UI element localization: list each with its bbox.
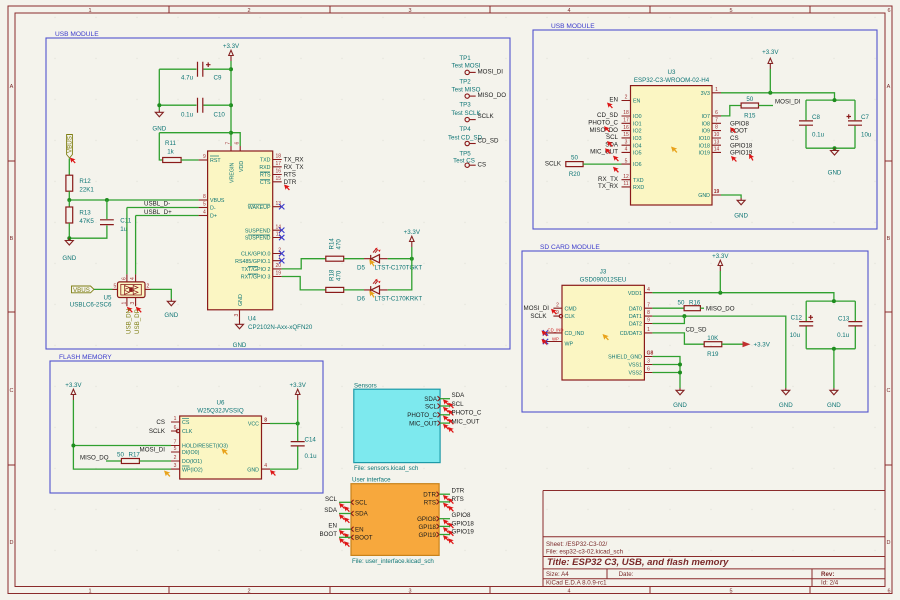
svg-text:Sensors: Sensors [354, 382, 377, 389]
svg-text:SCL: SCL [355, 500, 368, 507]
svg-text:15: 15 [623, 132, 629, 138]
svg-text:IO8: IO8 [701, 121, 710, 127]
wire U4 pin20 to R14 [282, 259, 326, 269]
svg-text:CMD: CMD [565, 306, 577, 312]
svg-text:CLK: CLK [565, 314, 576, 320]
erc arrows GPIO18 [443, 527, 449, 533]
svg-text:IO19: IO19 [699, 151, 711, 157]
svg-text:CLK/GPIO.0: CLK/GPIO.0 [241, 252, 270, 258]
svg-text:FLASH MEMORY: FLASH MEMORY [59, 354, 112, 361]
svg-text:CD_SD: CD_SD [478, 138, 500, 145]
svg-text:C10: C10 [214, 112, 226, 119]
svg-text:SUSPEND: SUSPEND [245, 228, 271, 234]
svg-text:VBUS: VBUS [73, 287, 90, 294]
junction VSS2 [678, 371, 682, 375]
erc arrows MIC_OUT [443, 424, 449, 430]
U6 left pin numbers [174, 416, 177, 469]
wire DAT0 to R16 [652, 307, 684, 309]
svg-text:VBUS: VBUS [67, 136, 74, 153]
svg-text:Test MISO: Test MISO [452, 87, 481, 94]
svg-text:B: B [10, 236, 14, 242]
erc arrows at U5 bottom pins [127, 307, 133, 313]
svg-text:RTS: RTS [424, 499, 436, 506]
svg-text:6: 6 [887, 588, 890, 594]
wire D- row [127, 208, 199, 275]
wire MISO_DO to R17 [106, 460, 121, 462]
svg-text:6: 6 [887, 8, 890, 14]
sheet pin SDA (UI) [351, 511, 369, 518]
svg-text:GSD090012SEU: GSD090012SEU [580, 277, 627, 284]
svg-text:5: 5 [625, 158, 628, 164]
svg-text:File: user_interface.kicad_sch: File: user_interface.kicad_sch [352, 558, 434, 565]
capacitor C11 1u [69, 200, 131, 238]
erc arrows EN (UI) [339, 530, 345, 536]
erc arrow at MISO_DO [604, 126, 610, 132]
svg-text:CD/DAT3: CD/DAT3 [620, 331, 642, 337]
erc arrows SCL [443, 407, 449, 413]
svg-text:+3.3V: +3.3V [290, 382, 307, 389]
sheet pin SCL (UI) [351, 500, 368, 507]
svg-text:CLK: CLK [182, 429, 193, 435]
svg-text:2: 2 [556, 302, 559, 308]
svg-text:D-: D- [210, 206, 216, 212]
junction R11 branch [229, 131, 233, 135]
svg-text:IO1: IO1 [633, 121, 642, 127]
svg-text:RXD: RXD [633, 185, 644, 191]
svg-text:SCL: SCL [325, 496, 338, 503]
svg-text:19: 19 [714, 189, 720, 195]
svg-text:22K1: 22K1 [79, 186, 94, 193]
wire EN (UI) [339, 528, 351, 530]
frame column numbers top [88, 8, 890, 14]
wire VDD1 row [652, 293, 834, 301]
capacitor C12 10u [790, 301, 856, 349]
module box USB MODULE (left) [46, 38, 510, 349]
svg-text:0.1u: 0.1u [837, 332, 850, 339]
erc arrow at VBUS label [70, 158, 76, 164]
svg-text:GPI19: GPI19 [418, 532, 436, 539]
svg-text:10K: 10K [707, 335, 719, 342]
svg-text:D: D [10, 540, 14, 546]
svg-text:3: 3 [408, 8, 411, 14]
svg-text:4: 4 [130, 277, 136, 280]
svg-text:R11: R11 [165, 140, 176, 147]
title block [543, 491, 885, 587]
wire SCL (UI) [339, 501, 351, 503]
svg-text:8: 8 [264, 418, 267, 424]
connector J3 GSD090012SEU body [562, 285, 644, 380]
svg-text:G8: G8 [647, 351, 654, 357]
svg-text:Rev:: Rev: [821, 571, 834, 578]
svg-text:RTS: RTS [260, 173, 271, 179]
svg-text:R13: R13 [79, 210, 91, 217]
svg-text:R16: R16 [689, 299, 701, 306]
svg-text:2: 2 [147, 283, 150, 289]
U6 pin names left [182, 420, 228, 473]
sheet pin PHOTO_C [407, 412, 440, 419]
U4 bottom GND pin3 [239, 310, 241, 319]
svg-text:GPIO8: GPIO8 [730, 120, 749, 127]
test point TP1 [452, 55, 481, 75]
svg-text:User interface: User interface [352, 477, 391, 484]
wire GPIO8 (UI) [439, 518, 450, 520]
svg-text:13: 13 [714, 139, 720, 145]
svg-text:C7: C7 [861, 114, 869, 121]
test point TP2 [452, 79, 481, 99]
U3 right pin numbers [714, 87, 720, 195]
svg-text:EN: EN [633, 99, 641, 105]
connector U5 USBLC6-2SC6 [118, 282, 146, 298]
erc arrows BOOT (UI) [339, 538, 345, 544]
svg-text:MOSI_DI: MOSI_DI [775, 99, 801, 106]
wire C9/C10 left join [158, 69, 160, 110]
svg-text:12: 12 [623, 174, 629, 180]
svg-text:WP(IO2): WP(IO2) [182, 467, 203, 473]
J3 left stubs [553, 308, 562, 316]
svg-text:SD CARD MODULE: SD CARD MODULE [540, 244, 600, 251]
svg-text:TX_RX: TX_RX [284, 157, 304, 164]
svg-text:2: 2 [247, 8, 250, 14]
sheet pin GPI18 (UI) [418, 524, 439, 531]
junction VBUS/C11 [105, 198, 109, 202]
svg-text:D: D [887, 540, 891, 546]
module box USB MODULE (right) [533, 30, 877, 229]
LED D6 LTST-C170KRKT [357, 279, 422, 303]
svg-text:GPIO18: GPIO18 [452, 521, 475, 528]
module box SD CARD MODULE [522, 251, 868, 412]
svg-text:9: 9 [647, 318, 650, 324]
svg-text:RTS: RTS [452, 496, 464, 503]
erc arrow at CMD [551, 309, 557, 315]
power +3.3V (U6 left) [65, 382, 82, 400]
U4 right stubs rows [273, 160, 282, 277]
svg-text:+3.3V: +3.3V [404, 229, 421, 236]
svg-text:DO(IO1): DO(IO1) [182, 459, 202, 465]
pin2 stub + wire to GND [145, 288, 151, 290]
wire DAT2 join [652, 316, 684, 323]
svg-text:2: 2 [625, 95, 628, 101]
svg-text:50: 50 [571, 155, 578, 162]
svg-text:VREGIN: VREGIN [230, 163, 236, 183]
svg-text:+3.3V: +3.3V [223, 43, 240, 50]
junction left join [157, 103, 161, 107]
erc arrow at IO6 stub [613, 167, 619, 173]
svg-text:CD_SD: CD_SD [597, 112, 619, 119]
junction C12/C13 top [832, 299, 836, 303]
sheet pin SDA [424, 396, 440, 403]
erc arrows SDA [443, 399, 449, 405]
U4 pin names right [235, 158, 271, 281]
junction +3.3V rail [410, 257, 414, 261]
erc arrow at IO18 row [748, 154, 755, 161]
svg-text:7: 7 [226, 142, 232, 145]
svg-text:8: 8 [715, 125, 718, 131]
svg-text:+3.3V: +3.3V [762, 49, 779, 56]
svg-text:17: 17 [275, 161, 281, 167]
junction left rail [71, 444, 75, 448]
svg-text:1: 1 [715, 87, 718, 93]
junction +3.3V [768, 91, 772, 95]
junction DAT1/DAT2 [682, 314, 686, 318]
ground GND (C12/C13) [827, 388, 841, 409]
svg-text:IO2: IO2 [633, 129, 642, 135]
erc arrow at BOOT [730, 127, 736, 133]
svg-text:7: 7 [174, 440, 177, 446]
wire R20 to IO6 [583, 163, 621, 165]
svg-text:4: 4 [625, 147, 628, 153]
pin D- stub U4 pin5 [199, 207, 208, 209]
svg-text:6: 6 [174, 425, 177, 431]
svg-text:DTR: DTR [284, 179, 297, 186]
erc arrows RTS [443, 503, 449, 509]
svg-text:C11: C11 [120, 218, 131, 225]
wire GND pin to C14 [270, 468, 298, 470]
pin RST stub U4 pin9 [199, 159, 208, 161]
svg-text:PHOTO_C: PHOTO_C [452, 410, 482, 417]
ground GND (R13/C11) [62, 238, 76, 262]
svg-text:MISO_DO: MISO_DO [478, 92, 507, 99]
svg-text:U4: U4 [248, 316, 256, 323]
svg-text:17: 17 [623, 118, 629, 124]
svg-text:U3: U3 [668, 69, 676, 76]
ground GND (U5) [164, 299, 178, 319]
J3 pin names left [565, 306, 585, 347]
svg-text:R17: R17 [129, 452, 141, 459]
svg-text:DTR: DTR [452, 488, 465, 495]
svg-text:TP2: TP2 [459, 79, 471, 86]
svg-text:GND: GND [827, 402, 841, 409]
resistor R20 50 [566, 155, 583, 179]
capacitor C10 0.1u [159, 98, 231, 119]
U5 bottom pin stubs 1,3 [127, 298, 136, 307]
svg-text:0.1u: 0.1u [181, 112, 194, 119]
svg-text:4.7u: 4.7u [181, 75, 194, 82]
svg-text:CP2102N-Axx-xQFN20: CP2102N-Axx-xQFN20 [248, 324, 313, 331]
svg-text:WAKEUP: WAKEUP [248, 205, 271, 211]
svg-text:U5: U5 [104, 295, 112, 302]
svg-text:GND: GND [779, 402, 793, 409]
svg-text:MISO_DO: MISO_DO [589, 127, 618, 134]
svg-text:50: 50 [678, 299, 685, 306]
svg-text:LTST-C170KRKT: LTST-C170KRKT [375, 296, 423, 303]
svg-text:2: 2 [174, 455, 177, 461]
svg-text:10u: 10u [790, 332, 801, 339]
erc arrows GPIO19 [443, 535, 449, 541]
svg-text:18: 18 [623, 110, 629, 116]
svg-text:C9: C9 [214, 75, 222, 82]
svg-text:DAT2: DAT2 [629, 322, 642, 328]
wire VBUS label to U5 pin5 [94, 288, 113, 290]
wire VCC to +3.3V [270, 423, 298, 425]
svg-text:IO7: IO7 [701, 114, 710, 120]
warning arrow at WP pin [164, 471, 170, 477]
wire C12/C13 bottom rail [806, 349, 855, 388]
svg-text:VSS2: VSS2 [628, 371, 642, 377]
ground GND (J3) [673, 388, 687, 409]
ground GND (DAT drop) [779, 388, 793, 409]
junction VBUS/R12 [67, 198, 71, 202]
svg-text:47K5: 47K5 [79, 218, 94, 225]
erc arrow at DTR [284, 185, 290, 191]
svg-text:470: 470 [336, 239, 343, 250]
module box FLASH MEMORY [50, 361, 323, 493]
svg-text:GND: GND [828, 170, 842, 177]
wire R15 to MOSI_DI [759, 105, 774, 107]
svg-text:WP: WP [565, 342, 574, 348]
erc arrows DTR [443, 495, 449, 501]
capacitor C8 0.1u [799, 100, 855, 148]
svg-text:R20: R20 [569, 171, 581, 178]
capacitor C7 10u [847, 100, 872, 148]
wire caps bottom rail [806, 147, 855, 149]
sheet pin DTR (UI) [423, 492, 439, 499]
svg-text:D+: D+ [210, 214, 217, 220]
svg-text:3: 3 [647, 359, 650, 365]
wire BOOT (UI) [339, 536, 351, 538]
svg-text:6: 6 [647, 367, 650, 373]
svg-text:HOLD/RESET(IO3): HOLD/RESET(IO3) [182, 444, 228, 450]
svg-text:RX_TX: RX_TX [284, 164, 304, 171]
svg-text:4: 4 [647, 287, 650, 293]
svg-text:ESP32-C3-WROOM-02-H4: ESP32-C3-WROOM-02-H4 [634, 77, 710, 84]
wire DTR (UI) [439, 493, 450, 495]
wire SDA [440, 398, 450, 400]
svg-text:TP5: TP5 [459, 151, 471, 158]
svg-text:VDD1: VDD1 [628, 291, 642, 297]
svg-text:8: 8 [647, 310, 650, 316]
sheet pin SCL [425, 403, 440, 410]
svg-text:CS: CS [182, 420, 190, 426]
IC U4 CP2102N body [208, 151, 273, 310]
svg-text:9: 9 [556, 310, 559, 316]
svg-text:A: A [887, 84, 891, 90]
svg-text:CD_IND: CD_IND [565, 331, 585, 337]
svg-text:R19: R19 [707, 351, 719, 358]
resistor R12 22K1 [66, 175, 95, 193]
svg-text:16: 16 [275, 169, 281, 175]
svg-text:GND: GND [238, 294, 244, 306]
svg-text:Test MOSI: Test MOSI [452, 63, 481, 70]
pin5 stub [113, 288, 118, 290]
resistor R13 47K5 [66, 200, 95, 238]
erc arrow at MIC_OUT [605, 148, 611, 154]
junction VDD1 +3.3V [718, 291, 722, 295]
power label +3.3V arrow (R19) [743, 341, 771, 349]
svg-text:CS: CS [156, 419, 165, 426]
resistor R19 10K [704, 335, 742, 358]
svg-text:R12: R12 [79, 178, 91, 185]
svg-text:+3.3V: +3.3V [65, 382, 82, 389]
svg-text:5: 5 [174, 446, 177, 452]
LED D5 LTST-C170TGKT [357, 248, 422, 272]
wire GPIO19 (UI) [439, 534, 450, 536]
svg-text:50: 50 [117, 452, 124, 459]
U4 top pin stubs 7,6 [231, 146, 240, 151]
svg-text:0.1u: 0.1u [305, 453, 318, 460]
svg-text:3: 3 [130, 302, 136, 305]
svg-text:C13: C13 [838, 316, 850, 323]
svg-text:TP4: TP4 [459, 126, 471, 133]
svg-text:RS485/GPIO.1: RS485/GPIO.1 [235, 259, 270, 265]
svg-text:1: 1 [174, 416, 177, 422]
svg-text:8: 8 [203, 194, 206, 200]
svg-text:MIC_OUT: MIC_OUT [452, 418, 480, 425]
wire IO7 to R15 [721, 106, 741, 116]
wire +3.3V to R11 [159, 133, 231, 160]
wire D6 to rail [388, 259, 412, 290]
svg-text:1k: 1k [167, 148, 174, 155]
junction caps top [833, 98, 837, 102]
capacitor C14 0.1u [291, 424, 317, 470]
svg-text:4: 4 [567, 588, 570, 594]
svg-text:+3.3V: +3.3V [712, 253, 729, 260]
svg-text:7: 7 [715, 117, 718, 123]
svg-text:Size: A4: Size: A4 [546, 571, 569, 578]
svg-text:VCC: VCC [248, 422, 259, 428]
svg-text:MIC_OUT: MIC_OUT [590, 149, 618, 156]
erc arrow at EN [607, 103, 613, 109]
warning arrow inside J3 [603, 334, 609, 340]
U6 overbars [182, 419, 190, 466]
svg-text:RXD: RXD [259, 165, 270, 171]
U6 right stubs [262, 424, 271, 470]
svg-text:MOSI_DI: MOSI_DI [140, 446, 166, 453]
sheet pin BOOT (UI) [351, 535, 373, 542]
resistor R18 470 [326, 269, 364, 292]
erc arrows GPIO8 [443, 519, 449, 525]
svg-text:3: 3 [234, 314, 240, 317]
frame row ticks left [8, 161, 15, 465]
svg-text:D6: D6 [357, 296, 365, 303]
svg-text:DI(IO0): DI(IO0) [182, 450, 200, 456]
svg-text:SDA: SDA [452, 392, 466, 399]
svg-text:MIC_OUT: MIC_OUT [409, 420, 437, 427]
U4 right pin numbers [275, 154, 281, 277]
power +3.3V (top of U4 rail) [223, 43, 240, 61]
U5 top pin stubs 6,4 [127, 274, 136, 282]
erc arrow at GPIO19 [731, 156, 737, 162]
svg-text:GPIO18: GPIO18 [730, 142, 753, 149]
svg-text:5: 5 [729, 588, 732, 594]
svg-text:EN: EN [609, 97, 618, 104]
svg-text:2: 2 [247, 588, 250, 594]
U4 pin names top (vertical) [230, 161, 246, 183]
svg-text:GPIO8: GPIO8 [452, 512, 471, 519]
svg-text:20: 20 [275, 263, 281, 269]
svg-text:+3.3V: +3.3V [754, 342, 771, 349]
svg-text:1: 1 [88, 8, 91, 14]
svg-text:SCLK: SCLK [478, 113, 495, 120]
svg-text:C12: C12 [791, 315, 803, 322]
sheet pin RTS (UI) [424, 499, 439, 506]
svg-text:SCL: SCL [606, 134, 619, 141]
U6 left stubs [171, 422, 180, 469]
sheet pin GPI19 (UI) [418, 532, 439, 539]
svg-text:1: 1 [647, 327, 650, 333]
junction C12/C13 bottom [832, 347, 836, 351]
svg-text:3: 3 [408, 588, 411, 594]
warning arrow inside U3 [671, 147, 677, 153]
svg-text:6: 6 [235, 142, 241, 145]
resistor R15 50 [741, 96, 758, 120]
svg-text:SCL: SCL [452, 401, 465, 408]
svg-text:4: 4 [203, 210, 206, 216]
sheet pin GPIO8 (UI) [417, 516, 439, 523]
sheet pin EN (UI) [351, 526, 364, 533]
svg-text:GND: GND [698, 193, 710, 199]
erc arrow at GND pin (U6) [270, 470, 276, 476]
svg-text:SCL: SCL [425, 403, 438, 410]
